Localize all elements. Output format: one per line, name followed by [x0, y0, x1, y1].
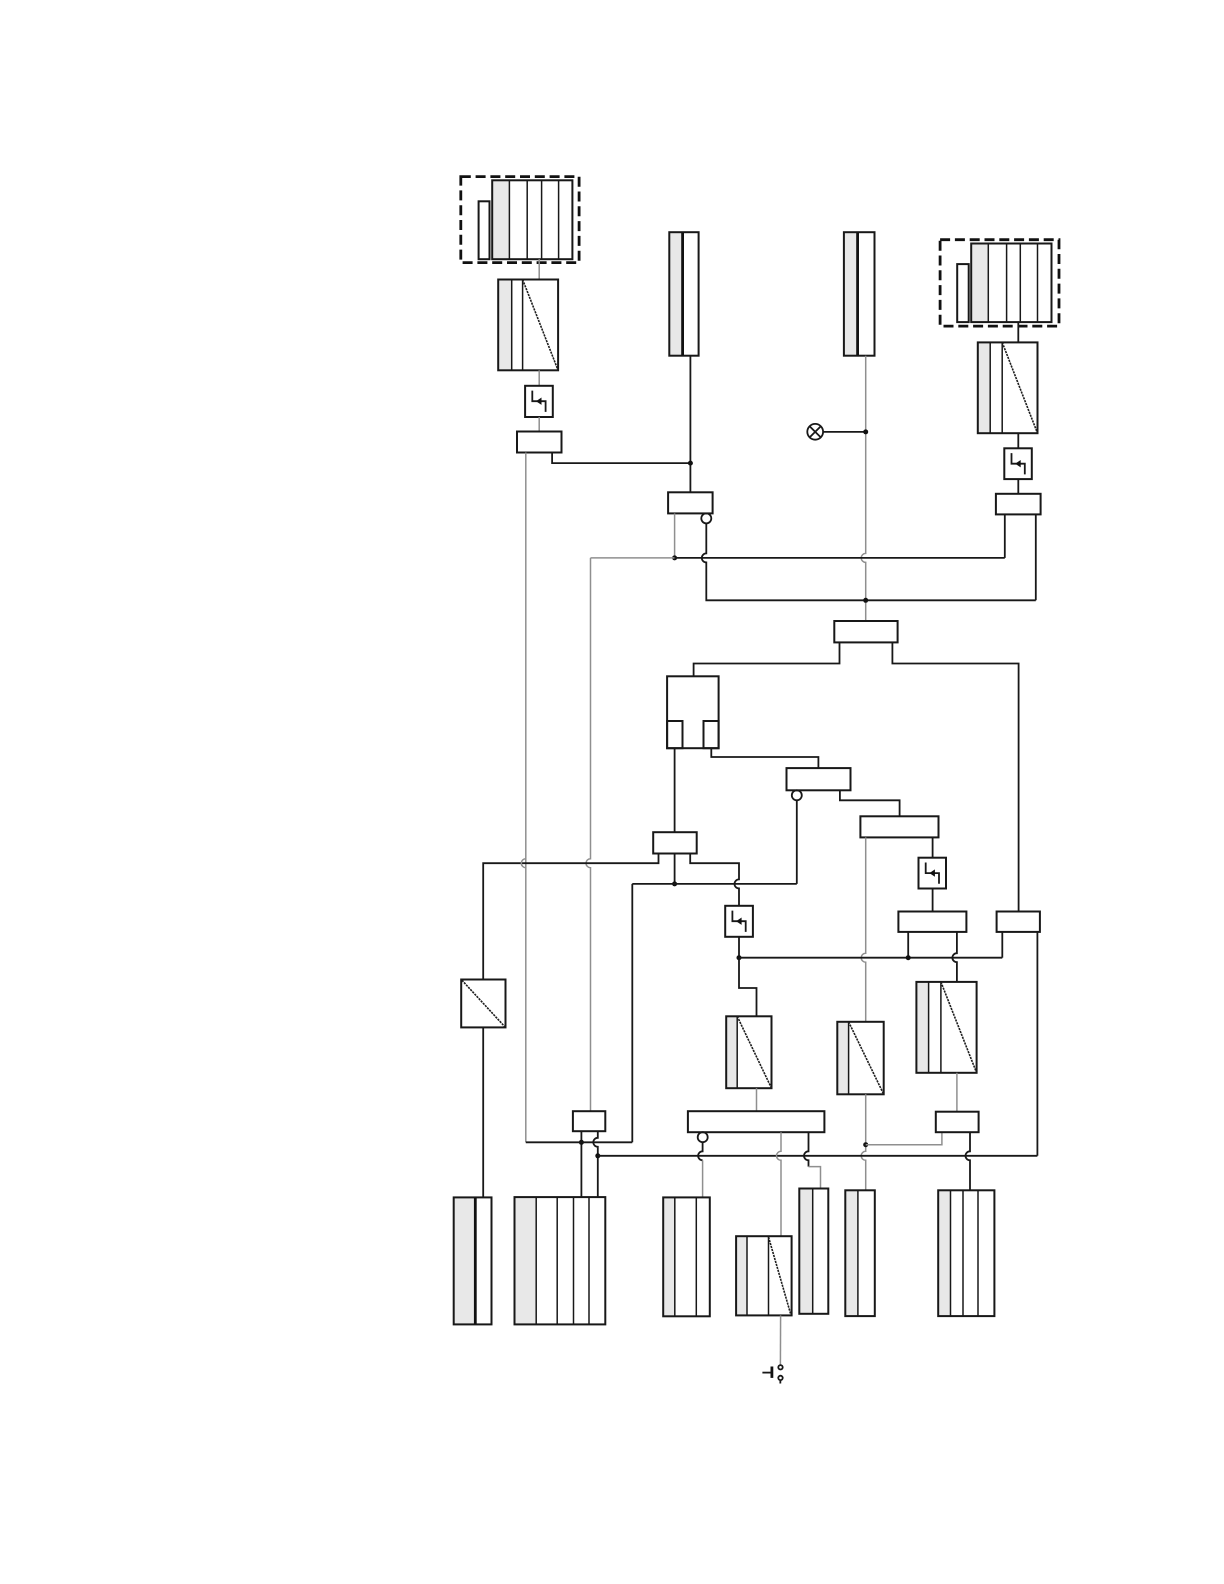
- net N4 left corner drop: [631, 884, 633, 1142]
- converter block B14: [916, 982, 976, 1073]
- function block B13: [573, 1111, 605, 1131]
- wire B8 right output to B9: [840, 790, 900, 816]
- negation bubble B5: [701, 513, 711, 523]
- function block B20: [996, 494, 1041, 515]
- converter block B19: [461, 980, 505, 1028]
- wire B5 left output: [674, 513, 676, 558]
- wire B1T to B5: [689, 356, 691, 493]
- wire L4 output to switch: [779, 1315, 781, 1365]
- terminal bar L2: [515, 1197, 606, 1324]
- function block B12: [688, 1111, 825, 1132]
- wire B12 bubble to L3 (hop at bus): [698, 1142, 703, 1160]
- wire ES1 to B3: [538, 417, 540, 432]
- wire B12 right output jog to L5 (hop at bus): [804, 1132, 809, 1166]
- function block B8: [787, 768, 851, 790]
- indicator lamp: [807, 424, 823, 440]
- wire B19 output to L1: [482, 1027, 484, 1197]
- wire B18 output gray to L6 (dot at 1144.7, hop at bus): [861, 1094, 866, 1190]
- edge symbol ES1: [525, 386, 553, 417]
- switch contact S1: [762, 1365, 782, 1383]
- wire B15 right output to L7 (hop at bus): [966, 1132, 971, 1190]
- wire B20 right output to net N7: [1035, 514, 1037, 600]
- function block B6: [834, 621, 897, 642]
- function block B15: [936, 1112, 979, 1133]
- junction D2: [672, 555, 677, 560]
- function block B7 with output tabs: [667, 676, 719, 748]
- wire B6 right output to B17: [892, 642, 1018, 911]
- function block B16: [898, 912, 966, 932]
- function block B3: [517, 432, 562, 453]
- converter block B11: [726, 1016, 771, 1088]
- wire B7 left tab to B10: [674, 748, 676, 832]
- wire B9 left output gray to B18 (hop at N3): [861, 837, 866, 1021]
- edge symbol ES4: [919, 858, 947, 889]
- function block B5: [668, 492, 713, 513]
- function block B9: [860, 816, 938, 837]
- terminal bar L1: [454, 1197, 492, 1324]
- junction D4: [863, 598, 868, 603]
- junction D3 lamp tap: [863, 429, 868, 434]
- wire B10 left output / net N5 (hops at 525.8 and 590.5): [483, 854, 658, 980]
- net N7 from B5 bubble (hop at N6): [702, 523, 1036, 600]
- wire lamp to spine: [823, 431, 866, 433]
- input bar B2T: [844, 232, 875, 356]
- wire B9 right output to ES4: [932, 837, 934, 857]
- wire B16 left output to D7: [907, 932, 909, 958]
- net N3 right riser to B17: [1001, 932, 1003, 958]
- wire B13 right output to D9 and L2 (hop at N1): [593, 1131, 598, 1197]
- wire DG1b to B2: [538, 259, 540, 279]
- negation bubble B8: [792, 790, 802, 800]
- junction D7: [906, 955, 911, 960]
- wire DG2b to B4: [1017, 322, 1019, 342]
- wire B8 bubble down to net N4: [796, 800, 798, 884]
- wire B7 right tab to B8: [711, 748, 818, 768]
- wire B10 right output to ES3 (hop at N4): [690, 854, 739, 906]
- wire B3 right output step to node D1: [552, 453, 690, 464]
- edge symbol ES2: [1004, 448, 1032, 479]
- hop of gray wire x525.8 over N5: [521, 859, 526, 868]
- wire B12 gray output to L4 (hop at bus): [777, 1132, 782, 1236]
- wire jog to L5 gray part: [809, 1167, 821, 1189]
- net N6 horizontal: [591, 557, 1005, 559]
- net N3 horizontal: [739, 957, 1002, 959]
- wire ES3 output to node D6: [738, 937, 740, 958]
- wire B10 center output to net N4: [674, 854, 676, 884]
- small module card DG1a: [479, 201, 490, 259]
- wire B4 to ES2: [1017, 433, 1019, 448]
- module group frame DG1 (dashed): [461, 177, 579, 263]
- junction D8: [579, 1140, 584, 1145]
- wire ES4 to B16: [932, 889, 934, 912]
- converter block B18: [837, 1022, 883, 1095]
- input bar B1T: [669, 232, 698, 356]
- wire B2 to ES1: [538, 370, 540, 386]
- net N1 horizontal (bottom link): [526, 1141, 633, 1143]
- wire B11 output to B12: [756, 1088, 758, 1111]
- rack block DG2b: [971, 244, 1051, 323]
- junction D1: [688, 461, 693, 466]
- converter bar L4: [736, 1236, 792, 1315]
- module group frame DG2 (dashed): [940, 240, 1059, 326]
- rack block DG1b: [492, 180, 572, 259]
- edge symbol ES3: [725, 906, 753, 937]
- net N4 horizontal: [632, 883, 797, 885]
- wire B17 right output long drop to bus: [1036, 932, 1038, 1156]
- wire B6 left output to B7: [694, 642, 840, 676]
- terminal bar L7: [938, 1190, 994, 1316]
- wire D10 to B15 bottom left: [866, 1132, 942, 1145]
- wire B14 output to B15: [956, 1073, 958, 1112]
- wire bubble hop to L3 lower part: [702, 1160, 704, 1197]
- wire B16 right output to B14 (hop at N3): [952, 932, 957, 982]
- wire B3 left output (gray drop to lower bus): [525, 453, 527, 1143]
- terminal bar L6: [845, 1190, 875, 1316]
- bus line to B17 riser corner: [598, 1155, 1038, 1157]
- wire B20 left output to net N6: [1004, 514, 1006, 558]
- converter block B4: [978, 342, 1038, 433]
- small module card DG2a: [957, 264, 969, 322]
- terminal bar L3: [663, 1197, 710, 1316]
- wire gray riser to B13: [586, 558, 591, 1111]
- junction D6: [737, 955, 742, 960]
- wire B2T gray spine down to B6 (hop at 557.9): [861, 356, 866, 621]
- junction D10: [863, 1142, 868, 1147]
- function block B10: [653, 832, 697, 853]
- function block B17: [997, 912, 1040, 932]
- wire ES3 node down jog to B11: [739, 958, 757, 1017]
- junction D9: [595, 1153, 600, 1158]
- negation bubble B12: [698, 1132, 708, 1142]
- converter block B2: [498, 280, 558, 371]
- wire B13 left output to D8 and L2: [580, 1131, 582, 1197]
- terminal bar L5: [799, 1189, 828, 1314]
- junction D5: [672, 881, 677, 886]
- wire ES2 to B20: [1017, 479, 1019, 494]
